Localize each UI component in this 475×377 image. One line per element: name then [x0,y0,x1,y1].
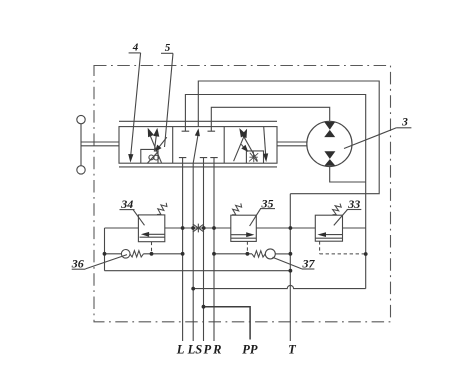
svg-text:LS: LS [187,342,203,356]
svg-text:36: 36 [71,257,84,271]
svg-text:37: 37 [302,257,316,271]
svg-text:5: 5 [165,42,171,54]
svg-text:34: 34 [120,197,133,211]
svg-text:R: R [212,342,221,356]
svg-text:L: L [176,342,185,356]
svg-text:4: 4 [132,42,139,54]
svg-text:3: 3 [401,116,408,128]
svg-text:33: 33 [347,197,360,211]
svg-text:35: 35 [261,196,274,210]
svg-text:PP: PP [242,342,258,356]
svg-text:T: T [288,342,297,356]
svg-text:P: P [203,342,211,356]
